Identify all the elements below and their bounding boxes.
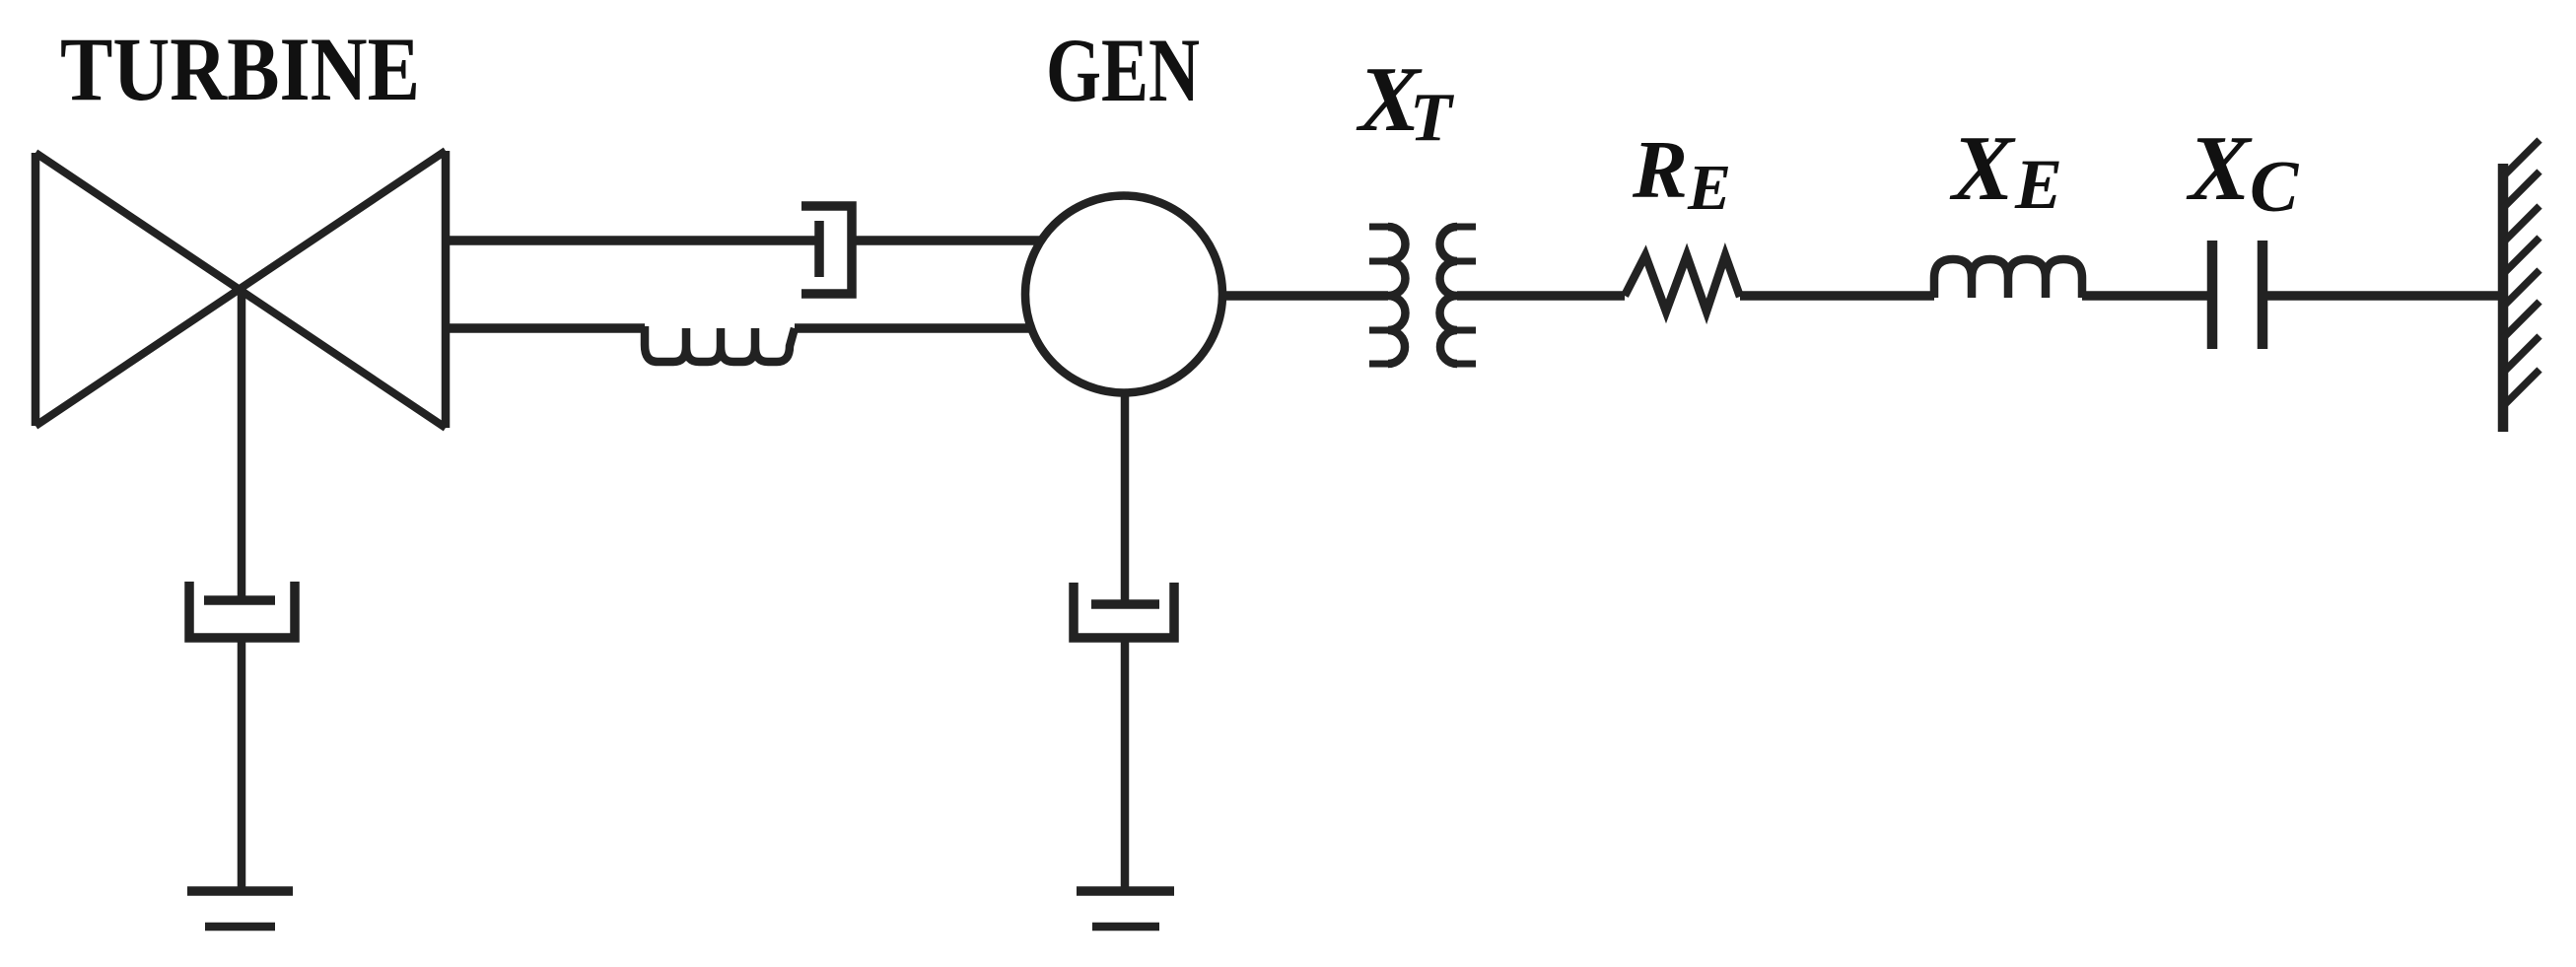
spring K shaft stiffness [645,326,795,362]
damper D2 cylinder [801,206,852,294]
turbine T1 diagonal blade line 2 [35,151,446,426]
svg-text:X: X [1949,117,2016,220]
wire damper D3 to ground [1121,638,1130,891]
damper D1 piston [204,595,275,605]
wire resistor RE to inductor XE [1740,291,1934,301]
wire generator to transformer [1220,291,1388,301]
turbine T1 right blade edge [442,151,451,428]
wire damper D2 to generator [852,236,1043,245]
wire turbine mass to damper D1 [238,290,246,600]
inductor XE [1934,259,2082,298]
wire capacitor XC to infinite bus [2263,291,2503,301]
svg-text:X: X [2186,117,2253,220]
transformer XT secondary winding [1440,227,1458,364]
capacitor XC left plate [2207,241,2218,349]
damper D2 piston [814,221,824,277]
generator G1 [1025,196,1222,393]
label XC [2186,117,2300,228]
wire damper D1 to ground [238,638,246,891]
infinite bus hatching [2504,140,2540,405]
damper D3 cylinder [1074,583,1174,638]
svg-text:T: T [1410,80,1455,156]
transformer XT primary winding [1388,227,1406,364]
wire upper shaft turbine to damper D2 [446,236,819,245]
label XE [1949,117,2062,224]
wire lower shaft turbine to spring K [446,323,645,333]
damper D1 cylinder [189,582,295,638]
ground under generator [1077,886,1174,896]
label RE [1632,124,1731,224]
turbine T1 left blade edge [32,153,40,426]
resistor RE [1625,255,1740,311]
svg-text:E: E [2014,145,2062,224]
wire generator to damper D3 [1121,390,1130,604]
capacitor XC right plate [2258,241,2268,349]
svg-text:R: R [1632,124,1688,216]
svg-text:TURBINE: TURBINE [60,19,420,119]
wire spring K to generator [795,323,1033,333]
wire inductor XE to capacitor XC [2082,291,2208,301]
turbine T1 diagonal blade line [35,153,446,428]
svg-text:E: E [1687,152,1731,224]
ground under turbine [187,886,293,896]
wire transformer to resistor RE [1457,291,1625,301]
svg-text:C: C [2250,147,2300,228]
infinite bus bar [2498,164,2509,432]
damper D3 piston [1091,599,1159,609]
svg-text:GEN: GEN [1046,20,1200,120]
label XT [1356,48,1455,156]
